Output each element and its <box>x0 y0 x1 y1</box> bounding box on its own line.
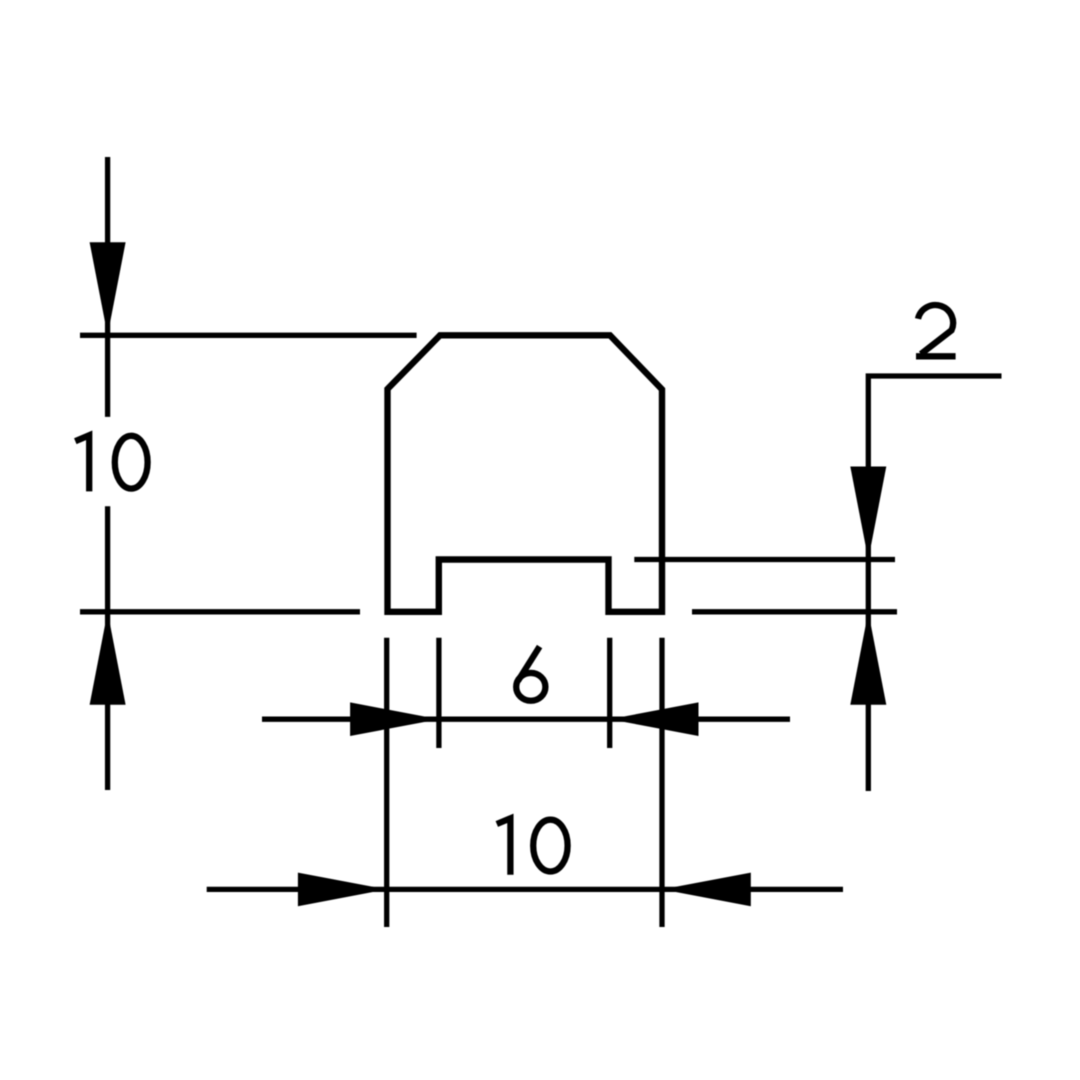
label 10 (bottom) digit 0 <box>533 820 567 872</box>
arrowhead up (vertical 10 bottom) <box>90 612 126 705</box>
arrowhead up (dim 2) <box>850 612 886 705</box>
extension line 10-right vertical <box>659 638 664 927</box>
leader line for 2 <box>868 376 1001 791</box>
dimension line vertical 10 lower segment <box>105 506 110 790</box>
extension line 2-lower (y=612) <box>692 609 897 614</box>
arrowhead down (vertical 10 top) <box>90 242 126 335</box>
extension line top (y=335) <box>80 333 417 338</box>
dimension line vertical 10 upper segment <box>105 157 110 417</box>
profile outline of moulding cross-section <box>388 335 663 612</box>
extension line 2-upper (y=559.5) <box>634 557 895 562</box>
label 10 (left) digit 1 <box>75 435 89 491</box>
arrowhead right (dim 6 left) <box>350 702 439 736</box>
label 10 (bottom) digit 1 <box>497 818 511 874</box>
dimension line 6 <box>262 717 790 722</box>
extension line 10-left vertical <box>384 638 389 927</box>
arrowhead left (dim 10 right) <box>662 873 751 907</box>
dimension line 10 bottom <box>207 887 843 892</box>
extension line bottom-left (y=612) <box>80 609 360 614</box>
label 10 (left) digit 0 <box>115 436 148 489</box>
arrowhead down (dim 2) <box>850 467 886 560</box>
arrowhead right (dim 10 left) <box>298 873 387 907</box>
extension line 6-left vertical <box>436 638 441 748</box>
label 6 <box>516 673 545 701</box>
arrowhead left (dim 6 right) <box>610 702 699 736</box>
label 2 <box>916 305 956 356</box>
extension line 6-right vertical <box>607 638 612 748</box>
